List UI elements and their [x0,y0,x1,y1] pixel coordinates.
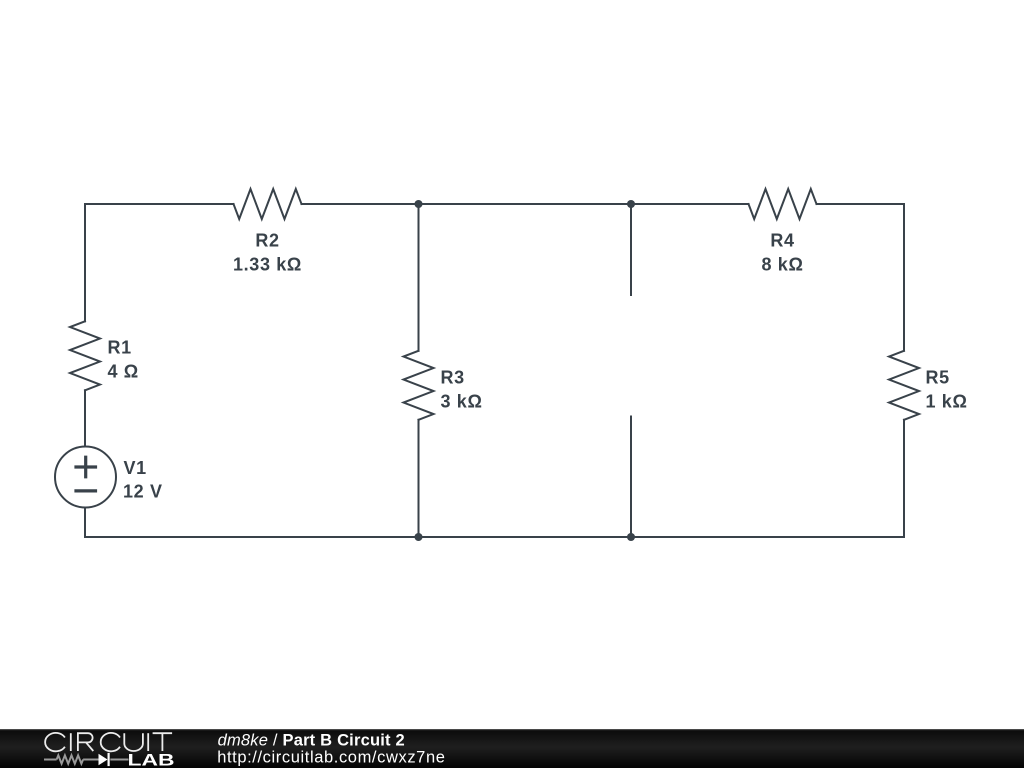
resistor R2 [234,189,302,219]
wire top-left horizontal segment [85,203,234,205]
svg-text:1 kΩ: 1 kΩ [926,392,968,412]
wire left vertical upper (corner to R1) [84,204,86,321]
wire open stub upper (node C down) [630,204,632,295]
resistor R4 [749,189,817,219]
wire open stub lower (up from bottom node) [630,417,632,538]
svg-text:R4: R4 [770,231,794,251]
wire left vertical lower (V1 to bottom) [84,508,86,538]
voltage source V1 circle [55,447,116,508]
footer bar [0,730,1024,768]
wire bottom horizontal [85,536,904,538]
logo diode triangle [99,754,108,766]
svg-text:V1: V1 [124,458,147,478]
resistor R1 [70,321,100,390]
wire top-right segment (R4 to corner) [817,203,905,205]
wire right vertical upper (corner to R5) [903,204,905,351]
V1 minus sign [76,489,96,492]
svg-text:8 kΩ: 8 kΩ [761,255,803,275]
resistor R3 [404,351,434,420]
svg-text:LAB: LAB [128,751,175,768]
svg-text:http://circuitlab.com/cwxz7ne: http://circuitlab.com/cwxz7ne [217,749,445,767]
node dot top C [627,200,635,208]
svg-text:R3: R3 [441,368,465,388]
wire left vertical (R1 to V1) [84,390,86,446]
svg-text:dm8ke / Part B Circuit 2: dm8ke / Part B Circuit 2 [218,731,405,749]
node dot bottom C [627,533,635,541]
logo resistor-diode symbol [44,755,129,763]
resistor R5 [889,351,919,420]
V1 plus sign [76,457,96,477]
svg-text:R1: R1 [108,338,132,358]
svg-text:4 Ω: 4 Ω [108,362,139,382]
svg-text:R2: R2 [255,231,279,251]
wire right vertical lower (R5 to bottom) [903,420,905,537]
logo diode cathode bar [108,753,110,766]
wire top-middle segment (R2 to node B) [302,203,749,205]
svg-text:1.33 kΩ: 1.33 kΩ [233,255,302,275]
wire middle branch lower (R3 to bottom node) [418,420,420,537]
svg-text:R5: R5 [926,368,950,388]
node dot top B [415,200,423,208]
svg-text:12 V: 12 V [123,482,163,502]
wire middle branch upper (node B to R3) [418,204,420,351]
svg-text:3 kΩ: 3 kΩ [441,392,483,412]
logo CIRCUIT wordmark [45,733,172,751]
node dot bottom B [415,533,423,541]
